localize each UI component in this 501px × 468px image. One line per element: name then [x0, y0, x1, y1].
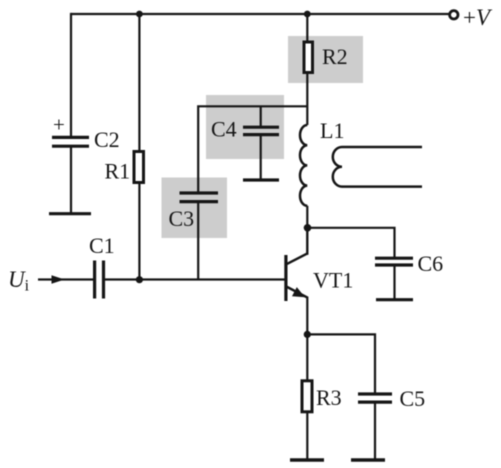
capacitor C2 — [52, 137, 89, 146]
wire: left column from rail down to C2 — [70, 13, 72, 137]
wire: node E to C5 — [307, 334, 375, 394]
wire: C3 bottom lead — [197, 202, 199, 280]
highlight box around R2 — [288, 36, 363, 83]
wire: R2 bottom lead to L1 — [306, 73, 308, 126]
node A: junction of rail and R1 — [136, 11, 143, 18]
svg-text:C5: C5 — [400, 386, 426, 411]
svg-text:C2: C2 — [94, 127, 120, 152]
svg-text:R2: R2 — [322, 44, 348, 69]
open-end bar under C4 — [243, 178, 279, 181]
terminal +V circle — [450, 11, 458, 19]
svg-text:C1: C1 — [89, 233, 115, 258]
wire: emitter lead down to node E — [306, 297, 308, 381]
transistor VT1 emitter stroke — [287, 287, 308, 298]
wire: C4 bottom lead — [260, 135, 262, 180]
ground bar under C6 — [376, 298, 413, 301]
capacitor C4 top lead — [260, 106, 262, 127]
wire: C1 to transistor base — [104, 278, 285, 280]
wire: from node C to C6 — [307, 228, 394, 258]
node D: junction of C1/R1/C3/base wire — [136, 276, 143, 283]
wire: input lead with arrow — [38, 278, 93, 280]
svg-text:C4: C4 — [211, 117, 237, 142]
transistor VT1 emitter arrow — [292, 287, 305, 297]
svg-text:+: + — [53, 113, 65, 137]
wire: R1 top lead — [138, 14, 140, 152]
wire: collector lead — [306, 226, 308, 255]
node B: junction of rail and R2 — [304, 11, 311, 18]
ground bar under C2 — [49, 212, 91, 215]
svg-text:C6: C6 — [418, 251, 444, 276]
capacitor C4 — [243, 127, 279, 134]
svg-text:R1: R1 — [105, 159, 131, 184]
inductor L1 primary winding — [300, 125, 307, 206]
wire: R1 bottom lead — [138, 184, 140, 280]
transistor VT1 base bar — [284, 255, 287, 301]
capacitor C5 — [358, 394, 392, 402]
inductor secondary winding — [333, 147, 422, 187]
highlight box around C4 — [206, 95, 284, 159]
svg-text:R3: R3 — [316, 385, 342, 410]
wire: C6 bottom lead — [393, 265, 395, 300]
svg-text:+V: +V — [463, 5, 493, 30]
capacitor C3 — [180, 193, 219, 202]
highlight box around C3 — [162, 178, 228, 239]
ground bar under C5 — [351, 458, 385, 461]
wire: branch from R2-L1 node to C4 and C3 — [198, 106, 307, 192]
wire: C5 bottom lead — [374, 402, 376, 460]
input arrow head — [52, 275, 65, 283]
wire: C2 bottom lead — [70, 147, 72, 213]
svg-text:C3: C3 — [169, 206, 195, 231]
wire: R2 top lead — [306, 14, 308, 42]
capacitor C1 — [95, 261, 104, 299]
svg-text:L1: L1 — [320, 118, 344, 143]
transistor VT1 collector stroke — [287, 253, 308, 264]
resistor R1 — [134, 152, 144, 183]
wire: R3 bottom lead — [306, 413, 308, 461]
capacitor C6 — [375, 258, 413, 265]
ground bar under R3 — [290, 458, 324, 461]
node C: junction of L1 / collector / C6 branch — [304, 224, 312, 232]
resistor R2 — [304, 42, 313, 73]
resistor R3 — [302, 381, 312, 412]
svg-text:VT1: VT1 — [313, 268, 353, 293]
node E: emitter junction — [304, 331, 311, 338]
wire: L1 bottom lead — [306, 206, 308, 254]
wire: top supply rail — [71, 13, 450, 15]
